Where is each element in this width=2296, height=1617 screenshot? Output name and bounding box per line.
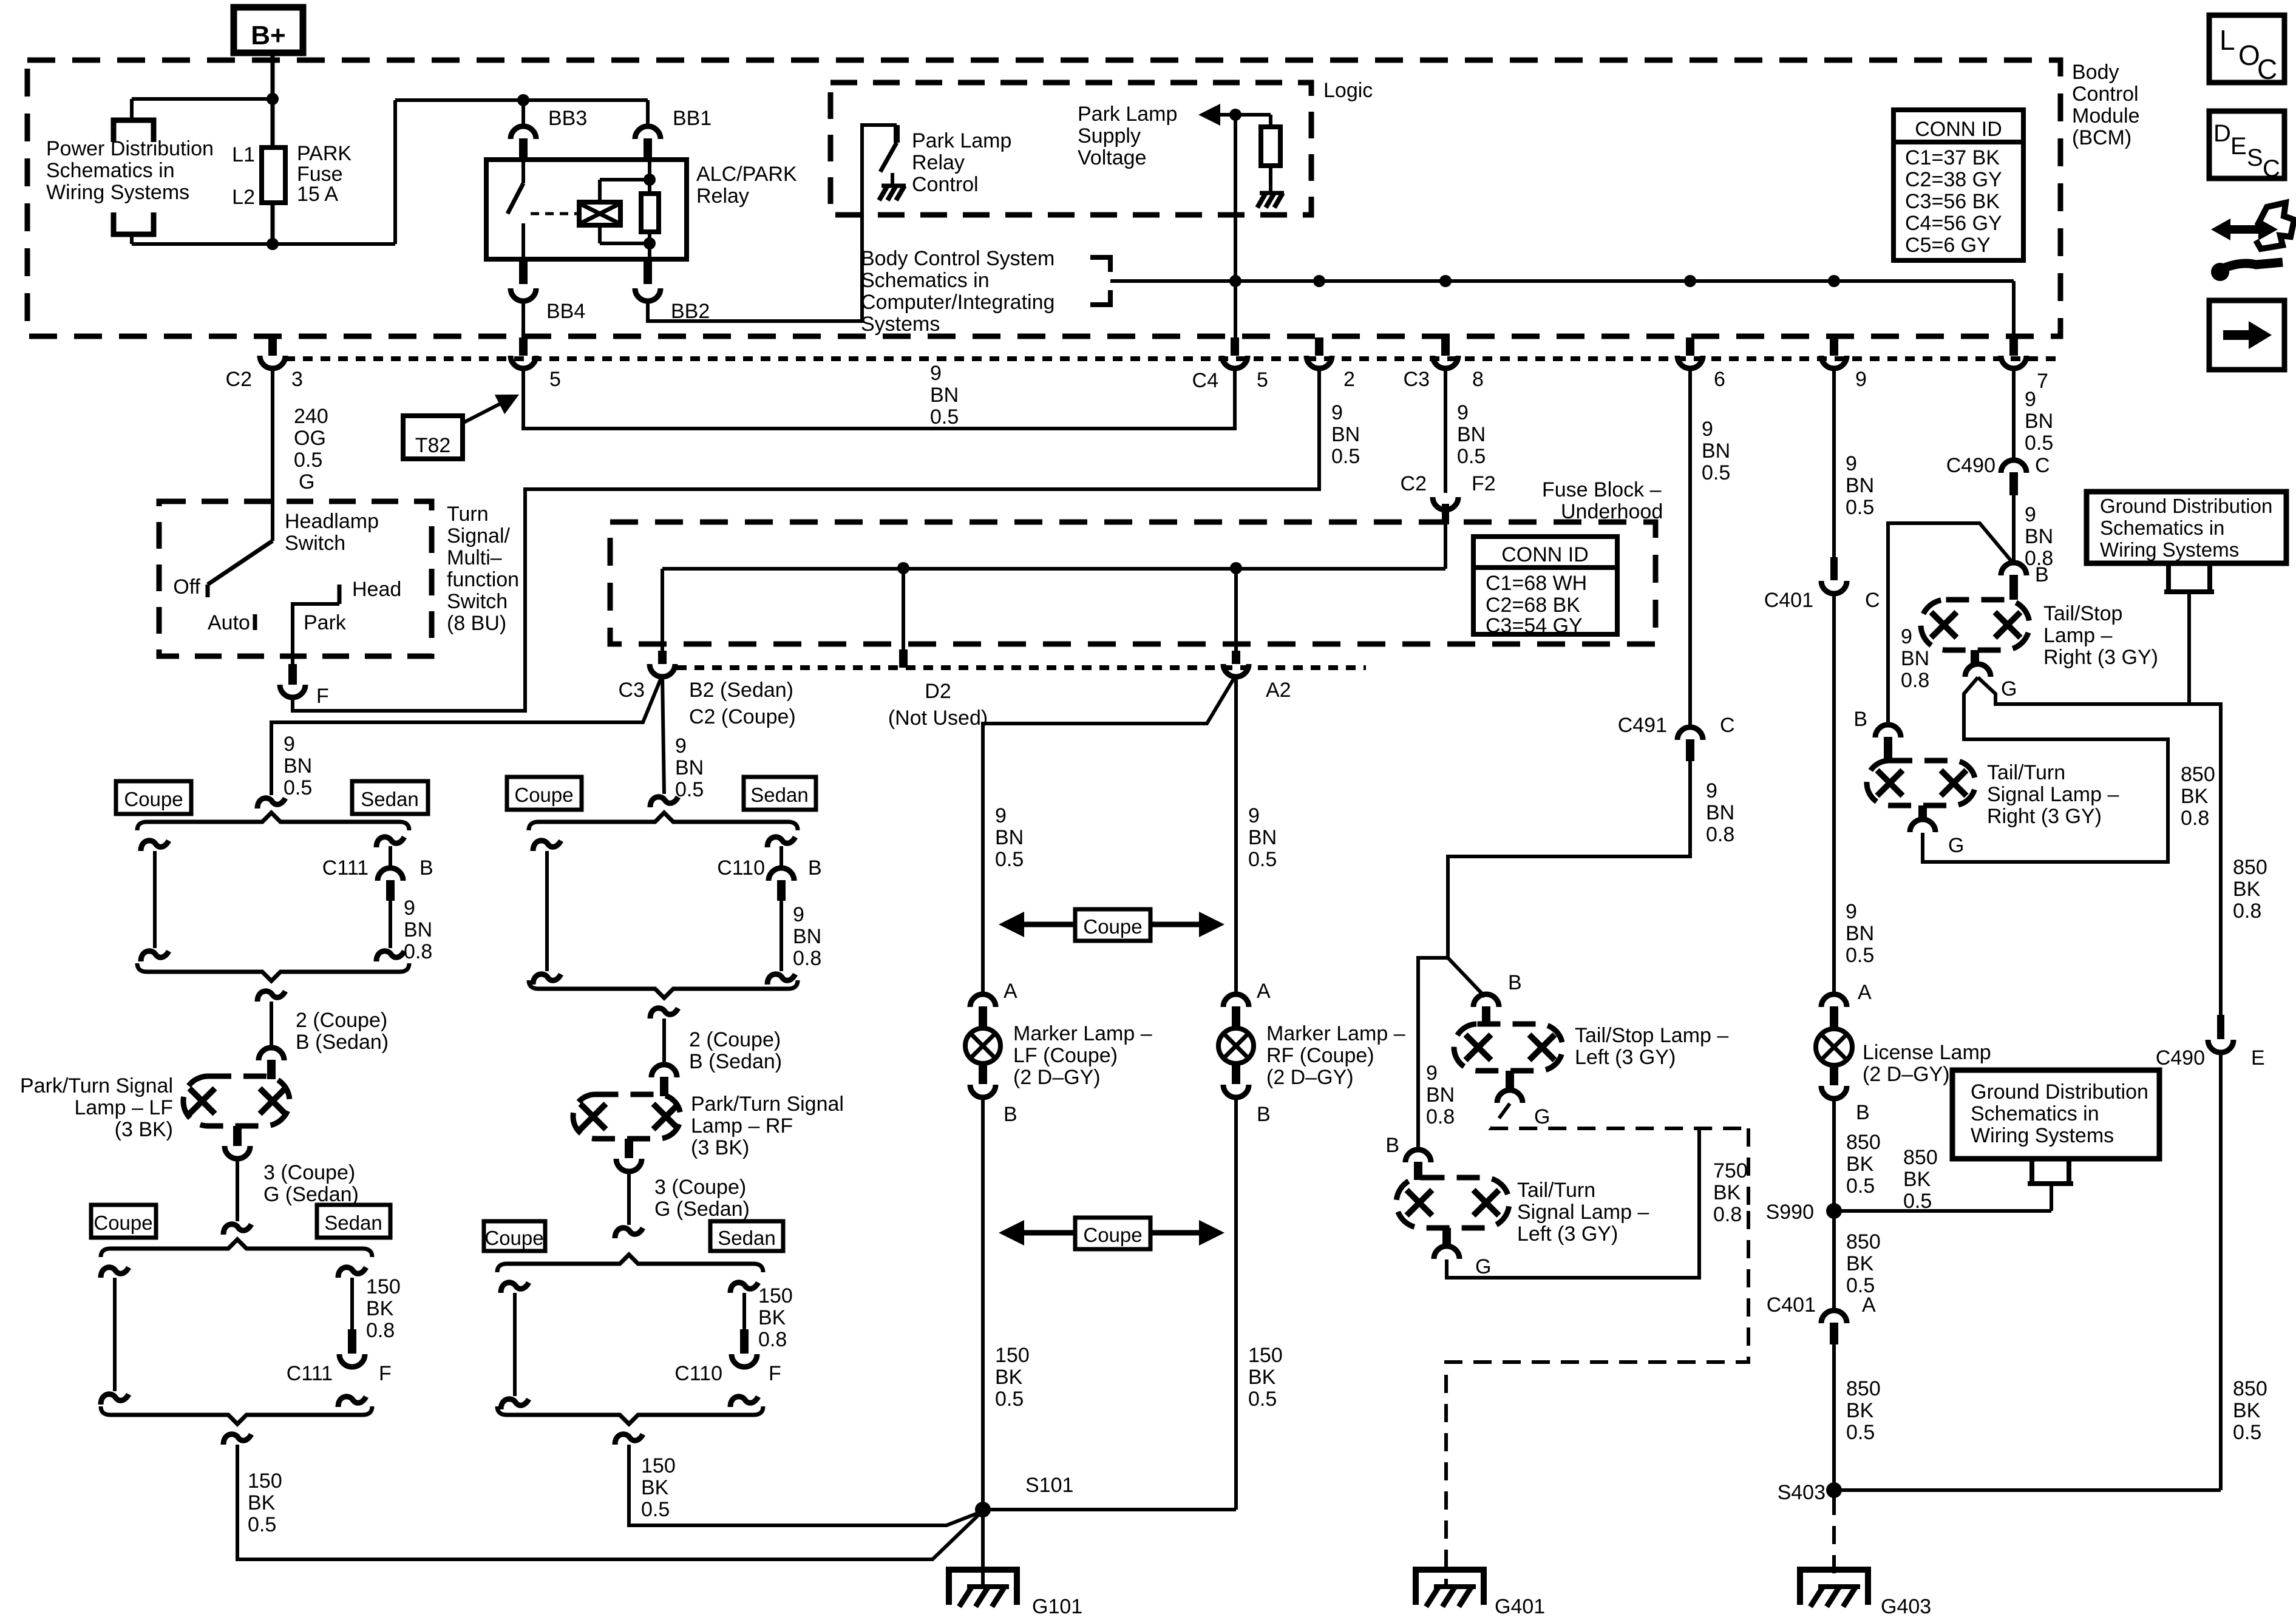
svg-text:C490: C490 bbox=[1946, 454, 1995, 477]
svg-text:Schematics in: Schematics in bbox=[2100, 517, 2224, 539]
svg-text:Switch: Switch bbox=[285, 532, 345, 555]
svg-text:Marker Lamp –: Marker Lamp – bbox=[1013, 1022, 1152, 1045]
svg-text:L1: L1 bbox=[232, 143, 255, 166]
svg-text:BK: BK bbox=[1713, 1181, 1741, 1204]
svg-text:750: 750 bbox=[1713, 1159, 1748, 1182]
svg-text:F2: F2 bbox=[1472, 472, 1496, 495]
svg-text:Coupe: Coupe bbox=[124, 788, 183, 810]
node fuse bus A2 bbox=[1230, 562, 1242, 574]
ground G401 bbox=[1416, 1570, 1484, 1605]
svg-text:Tail/Stop: Tail/Stop bbox=[2043, 602, 2122, 625]
legend shortcut icon bbox=[2256, 203, 2294, 249]
svg-text:License Lamp: License Lamp bbox=[1863, 1041, 1991, 1064]
park lamp supply voltage arrow bbox=[1198, 104, 1220, 126]
power distribution callout bracket top bbox=[114, 120, 154, 142]
svg-text:C490: C490 bbox=[2156, 1046, 2205, 1070]
svg-text:150: 150 bbox=[641, 1454, 676, 1477]
svg-text:BN: BN bbox=[1426, 1083, 1455, 1107]
node bus pin 6 bbox=[1684, 275, 1696, 287]
BCM connector dotted row bbox=[285, 356, 2057, 361]
wire license B to S990 bbox=[1832, 1098, 1836, 1211]
svg-text:9: 9 bbox=[1846, 452, 1857, 475]
merge brace branch2 lower bbox=[497, 1406, 763, 1424]
svg-text:ALC/PARK: ALC/PARK bbox=[696, 163, 797, 186]
svg-text:Coupe: Coupe bbox=[93, 1212, 152, 1234]
sedan tag branch2 bbox=[744, 777, 816, 810]
svg-text:C401: C401 bbox=[1764, 589, 1813, 612]
svg-text:Systems: Systems bbox=[861, 313, 940, 336]
svg-text:Body: Body bbox=[2072, 61, 2119, 84]
svg-text:BN: BN bbox=[404, 918, 432, 941]
svg-text:C3=56 BK: C3=56 BK bbox=[1905, 190, 2000, 213]
connector BB4 bbox=[519, 259, 528, 284]
svg-text:(2 D–GY): (2 D–GY) bbox=[1863, 1063, 1950, 1086]
svg-text:Coupe: Coupe bbox=[1083, 1224, 1142, 1246]
coupe path branch2 bbox=[533, 841, 561, 851]
connector C3 pin 8 bbox=[1441, 337, 1450, 356]
connector C4 pin 5 bbox=[1231, 337, 1239, 356]
svg-text:Wiring Systems: Wiring Systems bbox=[1971, 1124, 2114, 1147]
wire C401 A to S403 bbox=[1832, 1344, 1836, 1490]
svg-text:C1=68 WH: C1=68 WH bbox=[1486, 572, 1587, 595]
coupe ground path branch1 bbox=[101, 1267, 129, 1278]
svg-text:850: 850 bbox=[1846, 1131, 1881, 1154]
park lamp relay control switch bbox=[894, 125, 900, 143]
headlamp switch lever bbox=[208, 541, 273, 585]
svg-text:C: C bbox=[2263, 155, 2280, 182]
svg-text:850: 850 bbox=[1846, 1377, 1881, 1400]
node relay coil top junction bbox=[644, 174, 656, 186]
node junction below fuse bbox=[267, 238, 279, 250]
svg-text:0.8: 0.8 bbox=[1901, 669, 1929, 692]
wire callout bottom to fuse output bbox=[130, 233, 134, 244]
svg-text:BN: BN bbox=[930, 384, 959, 407]
svg-text:BK: BK bbox=[1846, 1399, 1874, 1422]
sedan tag branch1 bbox=[352, 781, 428, 814]
svg-text:Left (3 GY): Left (3 GY) bbox=[1575, 1046, 1676, 1069]
svg-text:150: 150 bbox=[248, 1470, 282, 1493]
wire tail/stop left G dashed to S990 bbox=[1492, 1103, 1748, 1128]
wire C2-3 down to switch bbox=[271, 367, 274, 541]
svg-text:3 (Coupe): 3 (Coupe) bbox=[263, 1161, 355, 1184]
svg-text:9: 9 bbox=[1706, 779, 1717, 802]
svg-text:A: A bbox=[1004, 980, 1017, 1003]
svg-text:850: 850 bbox=[2233, 856, 2267, 879]
svg-text:Underhood: Underhood bbox=[1561, 500, 1663, 523]
svg-text:Left (3 GY): Left (3 GY) bbox=[1517, 1222, 1618, 1246]
svg-text:Schematics in: Schematics in bbox=[861, 269, 990, 292]
svg-text:BN: BN bbox=[995, 826, 1024, 849]
svg-text:9: 9 bbox=[1702, 418, 1713, 441]
svg-text:Sedan: Sedan bbox=[718, 1227, 775, 1249]
split brace branch1 bbox=[137, 813, 409, 830]
svg-text:BN: BN bbox=[1248, 826, 1277, 849]
svg-text:A: A bbox=[1862, 1293, 1876, 1317]
svg-text:9: 9 bbox=[404, 897, 415, 920]
wire to power distribution callout top bbox=[132, 97, 273, 101]
svg-text:(2 D–GY): (2 D–GY) bbox=[1013, 1066, 1101, 1089]
svg-text:CONN ID: CONN ID bbox=[1915, 118, 2002, 141]
relay coil bbox=[579, 202, 620, 225]
svg-text:Off: Off bbox=[173, 575, 200, 598]
coupe tag branch1 bbox=[116, 781, 191, 814]
wire lamp RF to split 2 bbox=[627, 1171, 631, 1225]
connector C491 pin C bbox=[1688, 367, 1692, 728]
svg-text:B: B bbox=[1856, 1101, 1870, 1124]
svg-text:F: F bbox=[769, 1362, 781, 1385]
svg-text:9: 9 bbox=[930, 362, 942, 385]
connector fuse block C3 pin B2/C2 bbox=[658, 651, 667, 664]
svg-text:S990: S990 bbox=[1766, 1201, 1814, 1224]
connector C110 pin F bbox=[730, 1283, 758, 1293]
split brace branch2 bbox=[529, 813, 798, 830]
svg-text:C: C bbox=[1720, 714, 1735, 737]
svg-text:Signal Lamp –: Signal Lamp – bbox=[1987, 783, 2119, 806]
svg-text:5: 5 bbox=[1257, 368, 1268, 392]
connector C2 pin 3 bbox=[268, 337, 277, 356]
svg-text:0.8: 0.8 bbox=[758, 1328, 787, 1351]
coupe tag branch2 bbox=[507, 777, 582, 810]
svg-text:B: B bbox=[1853, 708, 1867, 731]
svg-text:Body Control System: Body Control System bbox=[861, 247, 1055, 270]
svg-text:0.5: 0.5 bbox=[1248, 1388, 1277, 1411]
svg-text:9: 9 bbox=[284, 733, 295, 756]
logic dashed box bbox=[830, 83, 1311, 215]
connector park turn RF pins 2/B bbox=[651, 1065, 677, 1077]
svg-text:0.5: 0.5 bbox=[284, 776, 312, 799]
svg-text:9: 9 bbox=[1457, 401, 1469, 424]
svg-text:9: 9 bbox=[1855, 368, 1867, 391]
svg-text:PARK: PARK bbox=[297, 142, 352, 165]
fuse PARK wire in bbox=[271, 99, 275, 147]
svg-text:0.5: 0.5 bbox=[1846, 1421, 1875, 1444]
lamp tail/turn signal right bbox=[1867, 761, 1975, 805]
body control system callout bracket bbox=[1090, 257, 1110, 272]
ground G403 bbox=[1800, 1570, 1868, 1605]
svg-text:G: G bbox=[1948, 834, 1964, 857]
svg-text:(3 BK): (3 BK) bbox=[691, 1136, 749, 1159]
svg-text:C111: C111 bbox=[322, 856, 369, 880]
coupe path branch1 bbox=[141, 841, 169, 851]
fuse block underhood dashed box bbox=[610, 522, 1656, 644]
svg-text:Wiring Systems: Wiring Systems bbox=[46, 181, 189, 204]
coupe span arrows lower bbox=[1075, 1218, 1150, 1249]
svg-text:0.5: 0.5 bbox=[1457, 445, 1486, 468]
wire C490 C down bbox=[2012, 495, 2016, 564]
svg-text:OG: OG bbox=[294, 427, 326, 450]
connector park turn RF pins 3/G bbox=[625, 1139, 633, 1158]
svg-text:BN: BN bbox=[1457, 423, 1486, 446]
wire marker RF to S101 bbox=[1234, 1097, 1238, 1510]
svg-text:Tail/Turn: Tail/Turn bbox=[1517, 1179, 1595, 1202]
svg-text:BN: BN bbox=[1706, 801, 1734, 824]
svg-text:Lamp – LF: Lamp – LF bbox=[74, 1096, 173, 1119]
connector park turn LF pins 3/G bbox=[233, 1126, 242, 1146]
svg-text:D2: D2 bbox=[925, 680, 951, 703]
svg-text:S: S bbox=[2247, 144, 2263, 171]
svg-text:Computer/Integrating: Computer/Integrating bbox=[861, 291, 1055, 314]
svg-text:G: G bbox=[1534, 1105, 1550, 1128]
coupe span arrows upper bbox=[1075, 909, 1150, 941]
sedan tag branch1 lower bbox=[317, 1205, 390, 1238]
svg-text:L: L bbox=[2220, 24, 2235, 56]
svg-text:(Not Used): (Not Used) bbox=[888, 707, 988, 730]
connector C490 pin E bbox=[2217, 1015, 2224, 1039]
wire C3 to left branch bbox=[271, 675, 662, 795]
node splice S403 bbox=[1826, 1482, 1842, 1498]
svg-text:9: 9 bbox=[1331, 401, 1343, 424]
svg-text:Sedan: Sedan bbox=[361, 788, 418, 810]
legend DESC icon bbox=[2209, 111, 2284, 178]
svg-text:E: E bbox=[2251, 1046, 2265, 1070]
svg-text:0.5: 0.5 bbox=[2233, 1421, 2261, 1444]
svg-text:B: B bbox=[1385, 1134, 1399, 1157]
svg-text:0.5: 0.5 bbox=[995, 848, 1024, 871]
connector C111 pin B bbox=[376, 837, 404, 847]
svg-text:0.8: 0.8 bbox=[1706, 823, 1734, 846]
ground G101 bbox=[981, 1516, 985, 1587]
svg-text:Signal/: Signal/ bbox=[447, 524, 511, 547]
svg-text:(2 D–GY): (2 D–GY) bbox=[1266, 1066, 1354, 1089]
svg-text:B: B bbox=[419, 856, 433, 880]
svg-text:C110: C110 bbox=[717, 856, 765, 880]
svg-text:Schematics in: Schematics in bbox=[1971, 1102, 2099, 1125]
svg-text:BK: BK bbox=[1846, 1153, 1874, 1176]
svg-text:Coupe: Coupe bbox=[1083, 915, 1142, 938]
node splice S990 bbox=[1826, 1203, 1842, 1219]
connector tail/stop left pin G bbox=[1506, 1071, 1514, 1091]
svg-text:2 (Coupe): 2 (Coupe) bbox=[296, 1009, 387, 1032]
svg-text:C: C bbox=[1865, 589, 1880, 612]
wire tail/turn right G stub bbox=[1921, 833, 1924, 845]
wire fuse output to relay feed riser bbox=[273, 242, 395, 246]
svg-text:2 (Coupe): 2 (Coupe) bbox=[689, 1028, 781, 1051]
wire BB2 to park lamp relay control bbox=[648, 125, 897, 321]
svg-text:6: 6 bbox=[1714, 368, 1725, 391]
connector BB2 bbox=[644, 259, 652, 284]
svg-text:Control: Control bbox=[912, 173, 979, 196]
svg-text:0.5: 0.5 bbox=[248, 1513, 276, 1536]
svg-text:E: E bbox=[2230, 133, 2247, 160]
svg-text:9: 9 bbox=[1426, 1062, 1438, 1085]
svg-text:C: C bbox=[2035, 454, 2050, 477]
svg-text:Headlamp: Headlamp bbox=[285, 510, 379, 533]
node bus pin C4-5 bbox=[1229, 275, 1241, 287]
fuse block connector dotted row bbox=[677, 665, 1366, 670]
svg-text:G101: G101 bbox=[1032, 1595, 1082, 1617]
svg-text:850: 850 bbox=[1846, 1230, 1881, 1253]
svg-text:BB3: BB3 bbox=[548, 107, 587, 130]
legend LOC icon bbox=[2209, 15, 2284, 83]
svg-text:S101: S101 bbox=[1025, 1474, 1073, 1497]
connector tail/stop right pin G bbox=[1971, 650, 1979, 665]
svg-text:BN: BN bbox=[793, 925, 821, 948]
svg-text:9: 9 bbox=[1248, 804, 1260, 827]
power distribution callout bracket bottom bbox=[114, 212, 154, 234]
svg-text:3 (Coupe): 3 (Coupe) bbox=[654, 1176, 746, 1199]
svg-text:D: D bbox=[2213, 120, 2231, 147]
svg-text:BN: BN bbox=[675, 756, 704, 779]
wire branch1 to S101 bbox=[223, 1434, 251, 1445]
svg-text:C: C bbox=[2257, 53, 2277, 85]
svg-text:3: 3 bbox=[291, 368, 303, 391]
sedan tag branch2 lower bbox=[710, 1221, 783, 1251]
svg-text:0.8: 0.8 bbox=[1426, 1105, 1455, 1128]
svg-text:9: 9 bbox=[675, 734, 687, 758]
svg-text:G: G bbox=[1475, 1255, 1491, 1278]
connector tail/turn left pin G bbox=[1442, 1228, 1451, 1247]
svg-text:Ground Distribution: Ground Distribution bbox=[2100, 495, 2272, 517]
svg-text:Marker Lamp –: Marker Lamp – bbox=[1266, 1022, 1405, 1045]
svg-text:0.8: 0.8 bbox=[404, 940, 432, 963]
svg-text:0.5: 0.5 bbox=[930, 405, 959, 429]
wire C491 to left tail lamps bbox=[1448, 761, 1690, 958]
ground distribution box lower bracket bbox=[2029, 1159, 2034, 1184]
svg-text:9: 9 bbox=[2025, 503, 2036, 526]
svg-text:Control: Control bbox=[2072, 83, 2139, 106]
fuse block conn id table bbox=[1473, 537, 1617, 634]
wire C490 E to S403 bbox=[2219, 1052, 2223, 1490]
svg-text:Lamp – RF: Lamp – RF bbox=[691, 1114, 793, 1137]
svg-text:C3: C3 bbox=[619, 679, 645, 702]
lamp tail/stop left bbox=[1454, 1024, 1563, 1071]
node junction below B+ bbox=[267, 93, 279, 105]
svg-text:Turn: Turn bbox=[447, 503, 489, 526]
svg-text:C2 (Coupe): C2 (Coupe) bbox=[689, 705, 796, 728]
ground distribution box upper bracket bbox=[2166, 563, 2171, 592]
svg-text:0.5: 0.5 bbox=[1846, 1175, 1875, 1198]
svg-text:BK: BK bbox=[1248, 1366, 1276, 1389]
svg-text:BK: BK bbox=[758, 1306, 786, 1329]
svg-text:7: 7 bbox=[2037, 370, 2048, 393]
svg-text:C401: C401 bbox=[1767, 1293, 1816, 1317]
ground distribution box right upper bbox=[2087, 492, 2286, 563]
svg-text:150: 150 bbox=[366, 1275, 401, 1298]
svg-text:C4=56 GY: C4=56 GY bbox=[1905, 212, 2002, 235]
svg-text:B: B bbox=[1257, 1103, 1271, 1126]
svg-text:BN: BN bbox=[2025, 410, 2053, 433]
svg-text:2: 2 bbox=[1343, 368, 1355, 391]
wire branch2 to S101 bbox=[615, 1434, 643, 1445]
node relay feed junction bbox=[517, 94, 529, 106]
wire marker LF to S101 bbox=[981, 1097, 985, 1510]
body control module dashed outline bbox=[27, 60, 2060, 336]
node logic supply junction bbox=[1229, 109, 1241, 121]
svg-text:C1=37 BK: C1=37 BK bbox=[1905, 146, 2000, 169]
svg-text:A: A bbox=[1257, 980, 1271, 1003]
connector C110 pin B bbox=[767, 837, 795, 847]
svg-text:BK: BK bbox=[1846, 1252, 1874, 1275]
svg-text:BB1: BB1 bbox=[673, 107, 712, 130]
svg-text:850: 850 bbox=[2233, 1377, 2267, 1400]
svg-text:Supply: Supply bbox=[1078, 124, 1141, 147]
svg-text:F: F bbox=[316, 685, 329, 708]
svg-text:0.5: 0.5 bbox=[1846, 496, 1874, 519]
lamp tail/stop right bbox=[1921, 600, 2029, 650]
svg-text:5: 5 bbox=[549, 368, 561, 391]
svg-text:G (Sedan): G (Sedan) bbox=[263, 1183, 359, 1206]
svg-text:Schematics in: Schematics in bbox=[46, 159, 175, 182]
svg-text:Logic: Logic bbox=[1323, 79, 1373, 102]
svg-text:BN: BN bbox=[1846, 474, 1874, 497]
svg-text:Right (3 GY): Right (3 GY) bbox=[1987, 805, 2102, 828]
wire tail/stop right G to C490 E bbox=[1978, 677, 2221, 1015]
svg-text:0.8: 0.8 bbox=[1713, 1203, 1742, 1226]
connector fuse block pin A2 bbox=[1234, 568, 1238, 651]
svg-text:A: A bbox=[1858, 981, 1872, 1004]
svg-text:BK: BK bbox=[1903, 1168, 1931, 1191]
connector pin 5 bbox=[519, 337, 528, 356]
svg-text:0.8: 0.8 bbox=[366, 1319, 395, 1342]
svg-text:Ground Distribution: Ground Distribution bbox=[1971, 1080, 2148, 1103]
svg-text:RF (Coupe): RF (Coupe) bbox=[1266, 1044, 1374, 1067]
svg-text:C2: C2 bbox=[226, 368, 252, 391]
svg-text:BK: BK bbox=[995, 1366, 1023, 1389]
wire switch F to BCM pin 2 bbox=[293, 367, 1319, 711]
connector park turn LF pins 2/B bbox=[259, 1048, 284, 1060]
legend next-page arrow icon bbox=[2209, 300, 2284, 370]
fuse PARK 15A bbox=[262, 147, 285, 203]
wire pin5 to C4-5 bbox=[523, 367, 1235, 429]
logic resistor ground bbox=[1260, 191, 1284, 195]
merge brace branch2 bbox=[529, 980, 798, 998]
svg-text:B: B bbox=[1508, 971, 1522, 994]
svg-text:Signal Lamp –: Signal Lamp – bbox=[1517, 1201, 1649, 1224]
svg-text:Park/Turn Signal: Park/Turn Signal bbox=[691, 1093, 844, 1116]
svg-text:850: 850 bbox=[2181, 763, 2215, 786]
svg-text:Auto: Auto bbox=[208, 611, 250, 634]
wire BCM internal bus bbox=[1110, 279, 2014, 283]
svg-text:Park Lamp: Park Lamp bbox=[912, 129, 1011, 152]
svg-text:B+: B+ bbox=[251, 21, 285, 50]
fuse PARK wire out bbox=[271, 203, 275, 244]
svg-text:L2: L2 bbox=[232, 186, 255, 209]
svg-text:Wiring Systems: Wiring Systems bbox=[2100, 538, 2239, 561]
svg-text:150: 150 bbox=[995, 1344, 1030, 1367]
svg-text:(BCM): (BCM) bbox=[2072, 126, 2131, 149]
svg-text:Park/Turn Signal: Park/Turn Signal bbox=[20, 1074, 173, 1097]
park lamp relay control ground bbox=[891, 173, 894, 185]
svg-text:C5=6 GY: C5=6 GY bbox=[1905, 234, 1991, 257]
wire B+ down to junction bbox=[271, 53, 275, 101]
svg-text:Park: Park bbox=[304, 611, 347, 634]
svg-text:B (Sedan): B (Sedan) bbox=[689, 1050, 782, 1073]
svg-text:9: 9 bbox=[793, 903, 804, 926]
svg-text:0.8: 0.8 bbox=[2181, 807, 2209, 830]
svg-text:Park Lamp: Park Lamp bbox=[1078, 103, 1177, 126]
svg-text:BN: BN bbox=[1901, 647, 1929, 670]
wire corner down to BB1 bbox=[646, 100, 650, 126]
svg-text:Tail/Stop Lamp –: Tail/Stop Lamp – bbox=[1575, 1024, 1728, 1047]
svg-text:G: G bbox=[2001, 677, 2017, 700]
relay ALC/PARK box bbox=[486, 160, 687, 259]
svg-text:B: B bbox=[2035, 563, 2049, 586]
svg-text:0.5: 0.5 bbox=[1846, 944, 1874, 967]
svg-text:(3 BK): (3 BK) bbox=[115, 1118, 173, 1141]
svg-text:A2: A2 bbox=[1266, 679, 1291, 702]
svg-text:BN: BN bbox=[1702, 439, 1730, 463]
svg-text:0.5: 0.5 bbox=[1331, 445, 1360, 468]
lamp park/turn signal LF bbox=[183, 1076, 290, 1126]
svg-text:BN: BN bbox=[284, 754, 312, 778]
connector headlamp switch pin F bbox=[288, 664, 297, 685]
svg-text:Right (3 GY): Right (3 GY) bbox=[2043, 646, 2158, 669]
svg-text:Coupe: Coupe bbox=[514, 784, 573, 806]
svg-text:Fuse Block –: Fuse Block – bbox=[1542, 478, 1662, 501]
svg-text:Power Distribution: Power Distribution bbox=[46, 137, 214, 160]
svg-text:BK: BK bbox=[2181, 785, 2209, 808]
svg-text:BN: BN bbox=[2025, 525, 2053, 548]
